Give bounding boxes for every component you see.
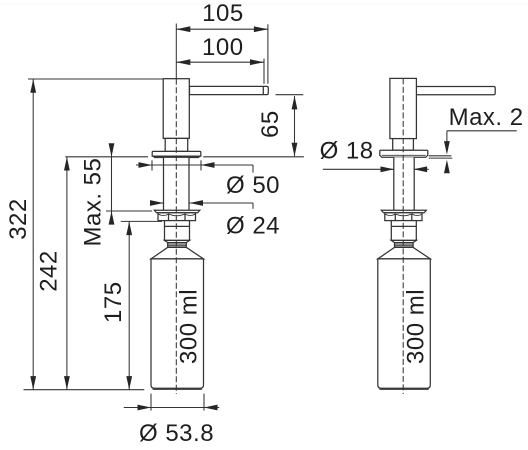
- svg-text:Ø 24: Ø 24: [226, 213, 280, 240]
- svg-text:Ø 50: Ø 50: [226, 172, 280, 199]
- svg-text:Ø 18: Ø 18: [320, 138, 374, 165]
- svg-text:Max. 2: Max. 2: [449, 104, 524, 131]
- svg-text:105: 105: [202, 0, 244, 27]
- svg-text:300 ml: 300 ml: [402, 289, 429, 364]
- svg-text:242: 242: [35, 250, 62, 292]
- svg-text:100: 100: [202, 34, 244, 61]
- svg-text:Ø 53.8: Ø 53.8: [139, 420, 214, 447]
- svg-text:Max. 55: Max. 55: [80, 158, 107, 247]
- svg-text:322: 322: [5, 198, 32, 240]
- svg-text:175: 175: [100, 281, 127, 323]
- svg-text:300 ml: 300 ml: [176, 289, 203, 364]
- svg-text:65: 65: [257, 110, 284, 138]
